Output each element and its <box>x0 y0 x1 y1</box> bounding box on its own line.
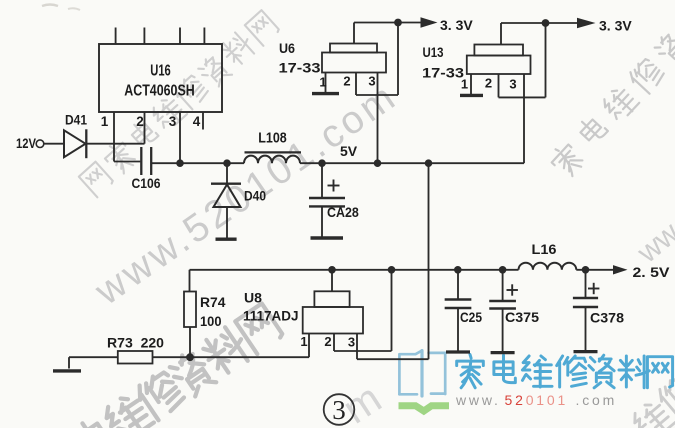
svg-text:3: 3 <box>368 74 375 89</box>
svg-text:L16: L16 <box>532 241 557 257</box>
svg-text:L108: L108 <box>258 131 287 147</box>
svg-text:C106: C106 <box>132 176 161 191</box>
svg-text:1117ADJ: 1117ADJ <box>243 308 299 324</box>
svg-text:100: 100 <box>200 314 222 329</box>
svg-text:17-33: 17-33 <box>422 65 464 81</box>
svg-text:CA28: CA28 <box>327 205 359 220</box>
svg-text:2. 5V: 2. 5V <box>633 264 671 280</box>
svg-text:U6: U6 <box>279 40 295 56</box>
svg-text:R73 220: R73 220 <box>107 336 164 351</box>
svg-text:3: 3 <box>348 335 355 350</box>
svg-text:2: 2 <box>324 334 331 349</box>
svg-text:3. 3V: 3. 3V <box>440 17 473 33</box>
svg-text:12V: 12V <box>16 136 36 151</box>
svg-text:4: 4 <box>193 114 201 129</box>
svg-text:ww: ww <box>631 216 675 270</box>
svg-text:17-33: 17-33 <box>279 59 321 75</box>
svg-text:.com: .com <box>576 392 618 408</box>
svg-text:ACT4060SH: ACT4060SH <box>124 83 195 100</box>
svg-text:C378: C378 <box>590 311 625 326</box>
svg-text:0101: 0101 <box>526 392 568 408</box>
svg-text:1: 1 <box>461 77 468 92</box>
svg-text:2: 2 <box>136 114 144 129</box>
svg-text:1: 1 <box>101 114 109 129</box>
svg-text:C375: C375 <box>505 310 540 325</box>
svg-text:52: 52 <box>505 392 526 408</box>
svg-text:U13: U13 <box>423 44 444 60</box>
svg-text:3. 3V: 3. 3V <box>599 18 632 34</box>
svg-text:1: 1 <box>300 334 307 349</box>
svg-text:2: 2 <box>343 74 350 89</box>
svg-text:5V: 5V <box>340 143 358 159</box>
svg-text:C25: C25 <box>460 310 482 325</box>
svg-text:2: 2 <box>485 76 492 91</box>
svg-text:R74: R74 <box>200 295 226 310</box>
svg-text:D41: D41 <box>65 113 87 128</box>
svg-text:3: 3 <box>169 114 177 129</box>
svg-text:U16: U16 <box>150 63 171 80</box>
svg-text:www.: www. <box>455 392 501 408</box>
svg-text:U8: U8 <box>244 290 262 306</box>
svg-text:1: 1 <box>319 75 326 90</box>
svg-text:3: 3 <box>509 77 516 92</box>
svg-text:D40: D40 <box>244 189 266 204</box>
svg-text:3: 3 <box>332 395 346 425</box>
